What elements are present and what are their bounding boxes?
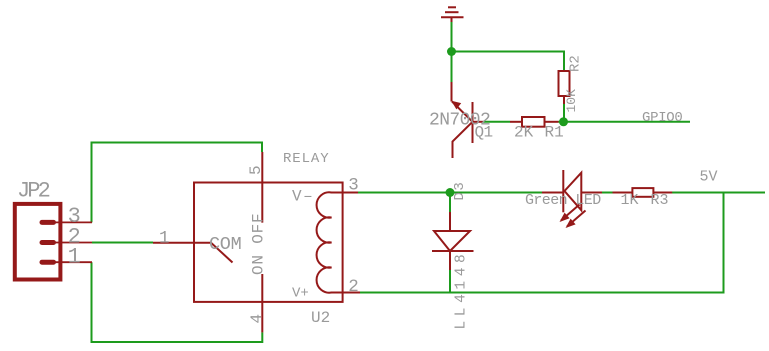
svg-text:1K: 1K (621, 192, 639, 209)
svg-text:LL4148: LL4148 (454, 250, 470, 330)
svg-text:3: 3 (348, 175, 359, 195)
svg-text:1: 1 (68, 244, 81, 269)
svg-text:5: 5 (247, 165, 265, 175)
svg-text:V–: V– (292, 187, 314, 205)
svg-text:Green LED: Green LED (525, 192, 601, 209)
svg-text:D3: D3 (452, 181, 468, 201)
svg-text:V+: V+ (292, 286, 309, 302)
svg-text:Q1: Q1 (475, 124, 493, 142)
svg-text:ON OFF: ON OFF (250, 213, 268, 275)
svg-text:10K: 10K (564, 89, 579, 113)
svg-text:R3: R3 (651, 192, 669, 209)
svg-text:U2: U2 (311, 309, 330, 327)
svg-text:4: 4 (248, 314, 266, 324)
svg-text:R1: R1 (545, 124, 564, 142)
svg-text:5V: 5V (700, 168, 718, 185)
svg-text:2K: 2K (514, 124, 534, 142)
svg-text:RELAY: RELAY (283, 151, 330, 167)
svg-text:GPIO0: GPIO0 (642, 110, 683, 126)
svg-text:1: 1 (159, 228, 170, 248)
svg-text:JP2: JP2 (17, 179, 50, 204)
svg-text:R2: R2 (568, 55, 584, 72)
svg-text:2: 2 (348, 277, 359, 297)
svg-text:COM: COM (209, 234, 241, 255)
